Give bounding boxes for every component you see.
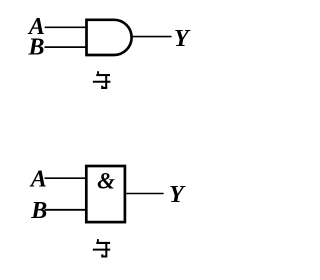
- svg-text:B: B: [27, 35, 44, 61]
- svg-text:B: B: [30, 198, 47, 224]
- svg-text:A: A: [29, 167, 47, 193]
- svg-text:Y: Y: [169, 182, 186, 208]
- svg-text:Y: Y: [174, 26, 191, 52]
- svg-text:&: &: [97, 169, 115, 194]
